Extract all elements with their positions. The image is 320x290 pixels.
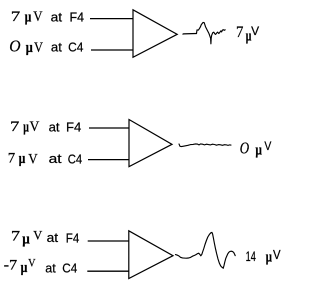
svg-text:7: 7 <box>236 24 243 41</box>
wire: F4 to amp1 <box>90 18 134 20</box>
svg-text:F4: F4 <box>66 120 81 135</box>
svg-text:O: O <box>9 37 20 56</box>
row2 input label: 7 uV at F4 <box>10 119 81 136</box>
wire: C4 to amp2 <box>88 159 130 161</box>
svg-text:V: V <box>33 9 42 25</box>
svg-text:at: at <box>47 230 59 245</box>
waveform: amp2 output trace (flat) <box>179 144 231 147</box>
svg-text:C4: C4 <box>68 40 83 55</box>
svg-text:μ: μ <box>26 40 33 56</box>
op-amp U1 <box>133 10 177 58</box>
svg-text:V: V <box>28 152 38 168</box>
svg-text:7: 7 <box>8 150 16 166</box>
svg-text:μ: μ <box>255 143 262 159</box>
svg-text:μ: μ <box>23 120 29 136</box>
svg-text:μ: μ <box>21 260 28 276</box>
label: O uV (output 2) <box>240 138 272 158</box>
svg-text:V: V <box>264 139 271 153</box>
svg-text:at: at <box>49 120 60 135</box>
wire: amp1 output lead <box>183 33 197 36</box>
op-amp U2 <box>129 120 172 167</box>
svg-text:at: at <box>51 40 62 55</box>
svg-text:C4: C4 <box>68 152 83 167</box>
wire: C4 to amp1 <box>91 49 134 51</box>
svg-text:7: 7 <box>11 9 21 25</box>
row3 input label: -7 uV at C4 <box>4 256 78 276</box>
svg-text:V: V <box>34 40 43 56</box>
waveform: amp3 output trace <box>176 232 236 268</box>
svg-text:7: 7 <box>10 119 20 135</box>
wire: F4 to amp2 <box>89 127 130 129</box>
waveform: amp1 output trace <box>197 22 226 43</box>
svg-text:μ: μ <box>22 231 30 247</box>
label: 7 uV (output 1) <box>236 24 260 45</box>
svg-text:V: V <box>30 119 40 135</box>
op-amp U3 <box>129 231 173 279</box>
wire: F4 to amp3 <box>88 240 130 242</box>
svg-text:F4: F4 <box>70 10 85 25</box>
svg-text:μ: μ <box>19 151 26 167</box>
svg-text:14: 14 <box>246 249 257 264</box>
svg-text:V: V <box>273 248 281 262</box>
svg-text:-7: -7 <box>4 258 18 274</box>
svg-text:C4: C4 <box>62 261 77 276</box>
row3 input label: 7 uV at F4 <box>11 227 79 247</box>
row1 input label: O uV at C4 <box>9 37 83 56</box>
label: 14 uV (output 3) <box>246 248 282 266</box>
row1 input label: 7 uV at F4 <box>11 9 84 26</box>
svg-text:at: at <box>49 151 62 166</box>
svg-text:at: at <box>51 10 63 25</box>
svg-text:μ: μ <box>25 10 32 26</box>
svg-text:V: V <box>28 256 36 270</box>
svg-text:V: V <box>251 26 259 38</box>
row2 input label: 7 uV at C4 <box>8 150 82 167</box>
svg-text:O: O <box>240 138 249 157</box>
svg-text:μ: μ <box>266 249 273 265</box>
svg-text:F4: F4 <box>66 231 80 246</box>
svg-text:7: 7 <box>11 228 21 244</box>
svg-text:V: V <box>33 227 43 242</box>
wire: C4 to amp3 <box>87 270 129 272</box>
svg-text:at: at <box>45 260 56 275</box>
